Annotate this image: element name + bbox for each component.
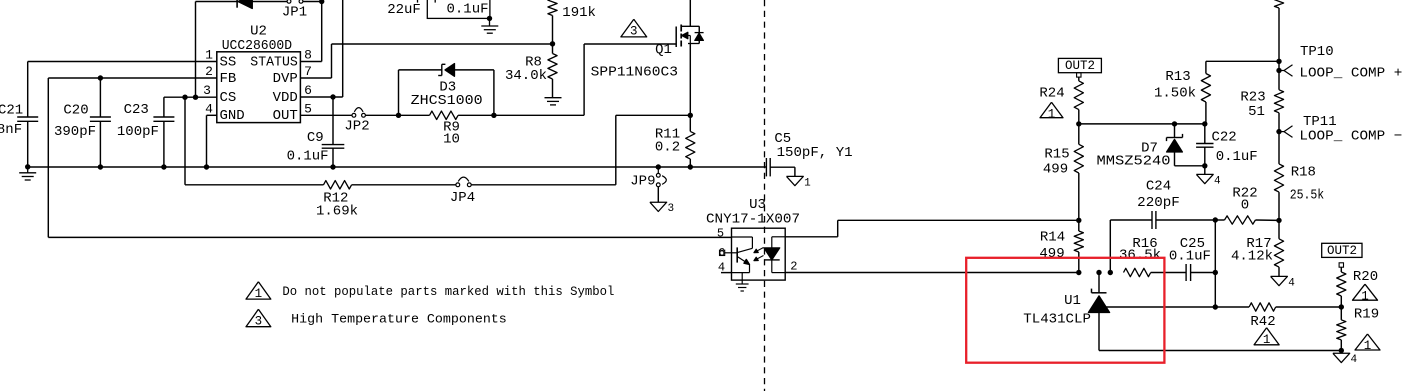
svg-text:R19: R19 [1354,306,1379,322]
wire: JP9 to flag [657,187,659,203]
svg-text:4: 4 [1351,354,1358,366]
junction: GND pin / ground rail [204,164,209,169]
wire: gate drive vertical [583,44,585,115]
junction: C21 / ground rail [25,164,30,169]
capacitor 0.1uF-box remnant at top edge [434,0,436,3]
optocoupler U3 body [732,228,786,280]
svg-text:R18: R18 [1291,165,1316,181]
wire: U3 pin2 cathode long run [785,272,1079,274]
resistor R42 [1249,303,1276,311]
capacitor C9 plates [322,144,345,146]
U3 phototransistor [736,247,738,262]
wire: OUT pin to JP2 [300,114,352,116]
svg-text:25.5k: 25.5k [1290,188,1325,204]
resistor R20 [1340,267,1342,272]
junction: R11 / ground rail [688,164,693,169]
junction: R14 / U3 cathode line [1076,270,1081,275]
capacitor C23 bottom lead [163,121,165,167]
svg-text:1: 1 [255,287,263,301]
svg-text:51: 51 [1248,104,1265,120]
wire: STATUS/JP1 top wire segment left [196,1,237,3]
wire: R8 to ground [552,79,554,98]
wire: R20 to node [1340,296,1342,307]
svg-text:3: 3 [203,83,211,98]
wire: R16 to C25 [1151,272,1186,274]
net flag 1 at C5 [787,176,804,185]
wire: R24 to junction [1078,110,1080,124]
junction: FB / C20 [98,75,103,80]
wire: SS pin to C21 [28,61,217,63]
svg-text:OUT: OUT [273,108,298,124]
test point TP11 [1276,129,1281,134]
resistor R13 [1206,60,1279,62]
wire: STATUS vertical to top wire [321,2,323,62]
jumper JP1 [287,0,291,3]
wire: GND pin down to rail [206,115,208,167]
capacitor C21 plates [17,116,38,118]
wire: CS to R12 vertical [184,97,186,185]
U3 pin 6 pad and stub [720,250,725,255]
svg-text:JP2: JP2 [344,119,369,135]
wire: FB vertical down [47,78,49,237]
capacitor 22uF remnant at top edge [417,0,419,3]
wire: R19 to bottom node [1340,340,1342,351]
svg-text:R14: R14 [1040,230,1065,246]
wire: D3 left branch up [398,70,400,115]
svg-text:TP11: TP11 [1303,114,1337,130]
svg-text:U3: U3 [749,197,766,213]
svg-text:OUT2: OUT2 [1327,244,1357,258]
svg-text:JP9: JP9 [630,173,655,189]
capacitor C9 top lead [332,97,334,145]
wire: D3 top edge right [455,69,494,71]
diode D-top (cut off at canvas top) on STATUS wire [236,0,238,8]
wire: U3 pin1 anode run [785,236,838,238]
net flag 3 below JP9 [650,202,667,211]
transistor Q1 MOSFET [675,27,677,48]
svg-text:Do not populate parts marked w: Do not populate parts marked with this S… [282,284,614,299]
wire: C25 to vertical [1191,272,1216,274]
wire: DVP run to R8 divider [332,43,553,45]
wire: top wire JP1 to STATUS junction [303,1,322,3]
svg-text:U1: U1 [1064,293,1081,309]
svg-text:3: 3 [630,25,638,39]
wire: R12 current sense line [185,184,324,186]
svg-text:390pF: 390pF [54,124,96,140]
junction: R20/R19/R42 node [1339,304,1344,309]
svg-text:220pF: 220pF [1137,195,1180,211]
ground symbol R8 [545,97,562,99]
svg-text:150pF, Y1: 150pF, Y1 [777,145,853,161]
svg-text:22uF: 22uF [387,2,421,18]
svg-text:1.69k: 1.69k [316,203,358,219]
svg-text:4: 4 [718,260,725,274]
svg-text:CS: CS [220,90,237,106]
junction: R18/R22/R17 node [1276,218,1281,223]
wire: vertical from top wire down to CS pin line [195,2,197,98]
svg-text:UCC28600D: UCC28600D [222,38,292,54]
capacitor C25 [1185,264,1187,281]
svg-text:R15: R15 [1044,146,1069,162]
svg-text:R42: R42 [1250,314,1275,330]
junction: C24 / cathode line [1108,270,1113,275]
svg-text:4: 4 [205,102,213,117]
warning triangle 3 near Q1 [621,19,647,37]
junction: STATUS net top [319,0,324,4]
wire: DVP vertical up [331,44,333,78]
junction: CS / R12 tap [182,95,187,100]
svg-text:5: 5 [304,102,312,117]
svg-text:STATUS: STATUS [250,54,298,70]
svg-text:R20: R20 [1353,269,1378,285]
wire: R17 to flag [1278,267,1280,276]
wire: top wire between diode and JP1 [252,1,287,3]
test point TP10 [1276,68,1281,73]
svg-text:100pF: 100pF [117,124,159,140]
capacitor C9 bottom lead [332,148,334,167]
svg-text:36.5k: 36.5k [1119,247,1161,263]
svg-text:JP1: JP1 [282,5,307,21]
port OUT2 lower [1322,243,1362,257]
IC U2 UCC28600D body [217,52,301,123]
svg-text:LOOP_ COMP +: LOOP_ COMP + [1299,66,1402,82]
wire: C22 bottom to flag [1204,166,1206,175]
wire: R15 to R14 node [1078,173,1080,220]
svg-text:499: 499 [1043,162,1068,178]
svg-text:VDD: VDD [273,90,298,106]
resistor remnant at top right [1274,0,1283,8]
diode D3 cathode bar with hooks [441,64,443,75]
wire: 191k to junction [552,16,554,54]
junction: D3 box left [396,113,401,118]
junction: vertical / REF line [1213,304,1218,309]
wire: R12 to JP4 [352,184,456,186]
shunt regulator U1 TL431CLP [1096,270,1101,275]
resistor R19 [1340,307,1342,320]
svg-text:2: 2 [205,64,213,79]
svg-text:1: 1 [1048,107,1056,121]
junction: 0.1uF box / ground [487,16,492,21]
wire: CS pin line [164,96,217,98]
resistor R8 [548,54,557,80]
wire: C24/C25 vertical to REF line [1214,220,1216,307]
wire: C24 left leg down [1109,220,1111,273]
wire: DVP pin to vertical [300,77,331,79]
warning triangle 1 near R20 [1353,284,1378,300]
junction: R19 / anode run [1339,348,1344,353]
svg-text:34.0k: 34.0k [505,68,547,84]
jumper JP9 [656,164,661,169]
junction: R15/R14/opto node [1076,218,1081,223]
resistor R12 [324,181,352,189]
wire: right main vertical upper [1278,8,1280,61]
capacitor C22 [1204,124,1206,144]
svg-text:Q1: Q1 [655,42,672,58]
svg-text:R24: R24 [1039,85,1064,101]
U3 LED [772,236,785,238]
resistor R18 [1274,164,1283,192]
junction: C22/D7 bottom [1202,163,1207,168]
resistor R24 [1078,77,1080,81]
svg-text:TP10: TP10 [1300,44,1334,60]
capacitor C23 plates [153,116,174,118]
svg-text:C23: C23 [124,102,149,118]
resistor R22 [1215,219,1224,221]
svg-text:1: 1 [1263,333,1271,347]
capacitor C21 top lead [27,62,29,118]
junction: Q1 source / R11 [688,113,693,118]
U3 light arrows [755,248,764,253]
svg-text:8: 8 [304,48,312,63]
wire: U1 anode bottom run [1099,350,1341,352]
svg-text:4: 4 [1288,277,1295,289]
svg-text:0.1uF: 0.1uF [1216,149,1258,165]
wire: TP11 to R18 [1278,132,1280,164]
svg-text:C21: C21 [0,102,23,118]
junction: C23 / ground rail [161,164,166,169]
wire: ground rail [28,166,767,168]
svg-text:C20: C20 [63,102,88,118]
junction: CS line / top wire [193,95,198,100]
svg-text:C9: C9 [307,130,324,146]
ground symbol below 0.1uF box [489,18,491,25]
junction: DVP divider [550,41,555,46]
svg-text:SS: SS [220,54,237,70]
wire: Q1 drain to top edge [689,0,691,26]
resistor R15 [1078,124,1080,144]
svg-text:0.1uF: 0.1uF [1169,248,1211,264]
wire: U1 anode down [1098,313,1100,351]
svg-text:TL431CLP: TL431CLP [1023,311,1091,327]
svg-text:0.1uF: 0.1uF [287,149,329,165]
wire: JP2 to D3/R9 network [365,114,398,116]
Q1 body diode [695,33,704,40]
wire: JP4 to Q1 source sense [471,184,616,186]
ground symbol left rail [27,167,29,173]
resistor R11 [689,115,691,131]
warning triangle 1 near R24 [1040,102,1063,118]
wire: R9 to corner [458,114,584,116]
net flag 4 bottom right [1340,351,1342,354]
svg-text:OUT2: OUT2 [1065,59,1095,73]
junction: R24/R15/D7 node [1076,121,1081,126]
svg-text:C22: C22 [1212,130,1237,146]
net flag 4 below R17 [1271,276,1288,285]
junction: R13 tap [1276,59,1281,64]
svg-text:0.1uF: 0.1uF [446,2,488,18]
svg-text:3: 3 [255,315,263,329]
svg-text:1: 1 [205,48,213,63]
svg-text:191k: 191k [562,5,596,21]
legend warning triangle 1 [246,282,271,299]
resistor R14 [1078,220,1080,231]
svg-text:CNY17-1X007: CNY17-1X007 [706,212,800,228]
svg-text:7: 7 [304,64,312,79]
svg-text:LOOP_ COMP −: LOOP_ COMP − [1299,129,1402,145]
junction: R13 bottom / C22 top [1202,121,1207,126]
wire: Q1 source down [689,44,691,116]
capacitor C24 [1110,219,1152,221]
wire: D3 top edge left [399,69,442,71]
wire: STATUS pin to vertical [300,61,321,63]
warning triangle 1 near R42 [1254,328,1279,345]
resistor divider 191k (cut at top) [548,0,557,16]
wire: FB bottom run to opto U3 pin5 [48,236,731,238]
svg-text:JP4: JP4 [450,190,475,206]
capacitor C21 bottom lead [27,121,29,167]
boxed capacitor 0.1uF [427,0,490,18]
wire: OUT line into R9 [399,114,430,116]
wire: U1 ref line [1106,306,1216,308]
svg-text:SPP11N60C3: SPP11N60C3 [591,65,678,81]
resistor R23 [1274,90,1283,113]
zener diode D7 [1172,121,1177,126]
svg-text:1: 1 [804,177,811,189]
capacitor C5 plates [765,158,767,176]
svg-text:DVP: DVP [273,71,298,87]
wire: vertical between R13 tap and TP10 [1278,61,1280,70]
capacitor C20 plates [90,116,111,118]
svg-text:0: 0 [1241,197,1249,213]
wire: REF/R42 line [1215,306,1249,308]
net flag 4 below C22/D7 [1196,174,1213,183]
svg-text:MMSZ5240: MMSZ5240 [1097,154,1171,170]
U3 pin 4 stub [721,272,732,274]
U3 internal ground [741,273,743,284]
wire: R18 to R22 node [1278,192,1280,220]
svg-text:6: 6 [718,248,725,260]
resistor R17 [1278,220,1280,238]
svg-text:4.12k: 4.12k [1231,248,1273,264]
junction: C25 / vertical [1213,270,1218,275]
wire: C5 to flag [770,166,795,168]
svg-text:0.2: 0.2 [655,140,680,156]
wire: GND pin stub [207,114,217,116]
wire: R23 to TP11 [1278,113,1280,132]
wire: R42 to R19/R20 node [1276,306,1342,308]
svg-text:499: 499 [1039,246,1064,262]
svg-text:3: 3 [668,203,675,215]
wire: R14 to cathode line [1078,252,1080,273]
junction: VDD / C9 [330,94,335,99]
svg-text:4: 4 [1214,175,1221,187]
junction: C24/R22 node [1213,217,1218,222]
wire: D3 right branch down [493,70,495,115]
resistor R16 [1124,268,1151,276]
svg-text:High Temperature Components: High Temperature Components [291,312,507,327]
diode D3 triangle [445,64,455,77]
warning triangle 1 near R19 [1355,334,1380,350]
svg-text:1: 1 [1364,339,1372,353]
svg-text:68nF: 68nF [0,122,22,138]
jumper JP4 [456,183,460,187]
dashed separation line [764,0,766,391]
highlight box around U1 [966,258,1164,363]
svg-text:FB: FB [220,71,237,87]
jumper JP2 [352,113,356,117]
junction: D3/R9 right [491,113,496,118]
capacitor C20 bottom lead [99,121,101,167]
wire: FB pin line [48,77,217,79]
legend warning triangle 3 [246,309,271,326]
port OUT2 upper [1058,58,1101,72]
svg-text:1.50k: 1.50k [1154,86,1196,102]
wire: TP10 to R23 [1278,71,1280,90]
wire: R11 to rail [689,159,691,167]
wire: VDD pin line [300,96,342,98]
svg-text:6: 6 [304,83,312,98]
wire: D7 anode to C22 bottom [1175,165,1205,167]
svg-text:2: 2 [790,260,797,274]
wire: gate drive horizontal [584,43,676,45]
wire: compensation node horizontal [1079,123,1205,125]
svg-text:5: 5 [717,226,724,240]
svg-text:1: 1 [1361,289,1369,303]
wire: VDD vertical to top edge [342,0,344,97]
wire: sense vertical up [615,115,617,185]
svg-text:ZHCS1000: ZHCS1000 [411,93,483,109]
svg-text:GND: GND [220,108,245,124]
wire: sense to Q1 source node [616,114,691,116]
capacitor C20 top lead [99,78,101,117]
resistor R9 [430,111,459,119]
svg-text:10: 10 [443,132,460,148]
junction: C9 / ground rail [330,164,335,169]
svg-text:R13: R13 [1165,69,1190,85]
junction: C20 / ground rail [98,164,103,169]
capacitor C23 top lead [163,97,165,117]
svg-text:C24: C24 [1146,178,1171,194]
